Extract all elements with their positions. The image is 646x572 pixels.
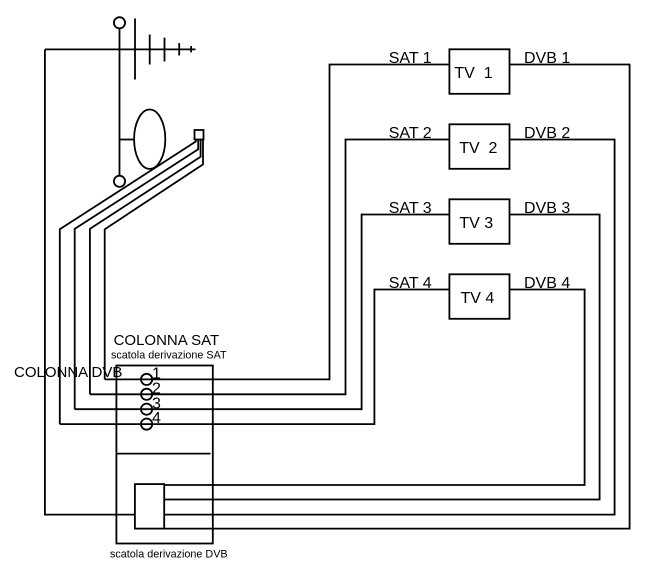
socket 4 bbox=[141, 419, 152, 430]
DVB feed wire bbox=[45, 49, 135, 514]
svg-text:scatola derivazione SAT: scatola derivazione SAT bbox=[111, 349, 227, 361]
svg-text:COLONNA SAT: COLONNA SAT bbox=[114, 332, 220, 349]
socket 3 bbox=[141, 404, 152, 415]
yagi element 5 bbox=[190, 46, 192, 52]
yagi element 1 bbox=[134, 18, 136, 79]
svg-text:DVB 1: DVB 1 bbox=[524, 50, 570, 67]
svg-text:TV 3: TV 3 bbox=[459, 215, 493, 232]
TV 3 box bbox=[449, 199, 509, 244]
svg-text:4: 4 bbox=[152, 410, 161, 427]
DVB 4 wire bbox=[164, 290, 584, 486]
DVB 2 wire bbox=[164, 140, 614, 515]
separator line bbox=[116, 453, 210, 455]
DVB amplifier box bbox=[135, 484, 164, 528]
mast top insulator bbox=[114, 17, 125, 28]
antenna mast bbox=[119, 29, 121, 175]
socket 1 bbox=[141, 374, 152, 385]
SAT cable to socket 4 bbox=[60, 140, 196, 425]
yagi element 4 bbox=[178, 43, 180, 55]
satellite dish bbox=[134, 110, 165, 169]
svg-text:scatola derivazione DVB: scatola derivazione DVB bbox=[110, 549, 228, 561]
antenna boom bbox=[45, 48, 196, 50]
svg-text:SAT 1: SAT 1 bbox=[389, 50, 432, 67]
SAT 1 wire bbox=[105, 65, 450, 380]
dish strut bbox=[120, 139, 135, 141]
TV 1 box bbox=[449, 49, 509, 94]
svg-text:SAT 2: SAT 2 bbox=[389, 125, 432, 142]
mast bottom insulator bbox=[114, 176, 125, 187]
svg-text:SAT 3: SAT 3 bbox=[389, 200, 432, 217]
DVB 1 wire bbox=[164, 65, 629, 529]
svg-text:COLONNA DVB: COLONNA DVB bbox=[14, 364, 122, 381]
SAT cable to socket 2 bbox=[90, 140, 201, 395]
yagi element 2 bbox=[149, 35, 151, 65]
TV 2 box bbox=[449, 124, 509, 169]
TV 4 box bbox=[449, 274, 509, 319]
svg-text:DVB 2: DVB 2 bbox=[524, 125, 570, 142]
SAT cable to socket 3 bbox=[75, 140, 199, 410]
svg-text:TV 2: TV 2 bbox=[459, 140, 497, 157]
socket 2 bbox=[141, 389, 152, 400]
SAT 2 wire bbox=[90, 140, 450, 395]
DVB 3 wire bbox=[164, 215, 599, 500]
SAT derivation box bbox=[116, 366, 212, 544]
svg-text:SAT 4: SAT 4 bbox=[389, 275, 432, 292]
SAT 4 wire bbox=[60, 290, 450, 425]
svg-text:TV 1: TV 1 bbox=[454, 65, 492, 82]
SAT cable to socket 1 bbox=[105, 140, 203, 380]
svg-text:DVB 4: DVB 4 bbox=[524, 275, 570, 292]
yagi element 3 bbox=[164, 38, 166, 62]
SAT 3 wire bbox=[75, 215, 450, 410]
svg-text:TV 4: TV 4 bbox=[461, 290, 495, 307]
svg-text:DVB 3: DVB 3 bbox=[524, 200, 570, 217]
LNB bbox=[195, 130, 204, 140]
